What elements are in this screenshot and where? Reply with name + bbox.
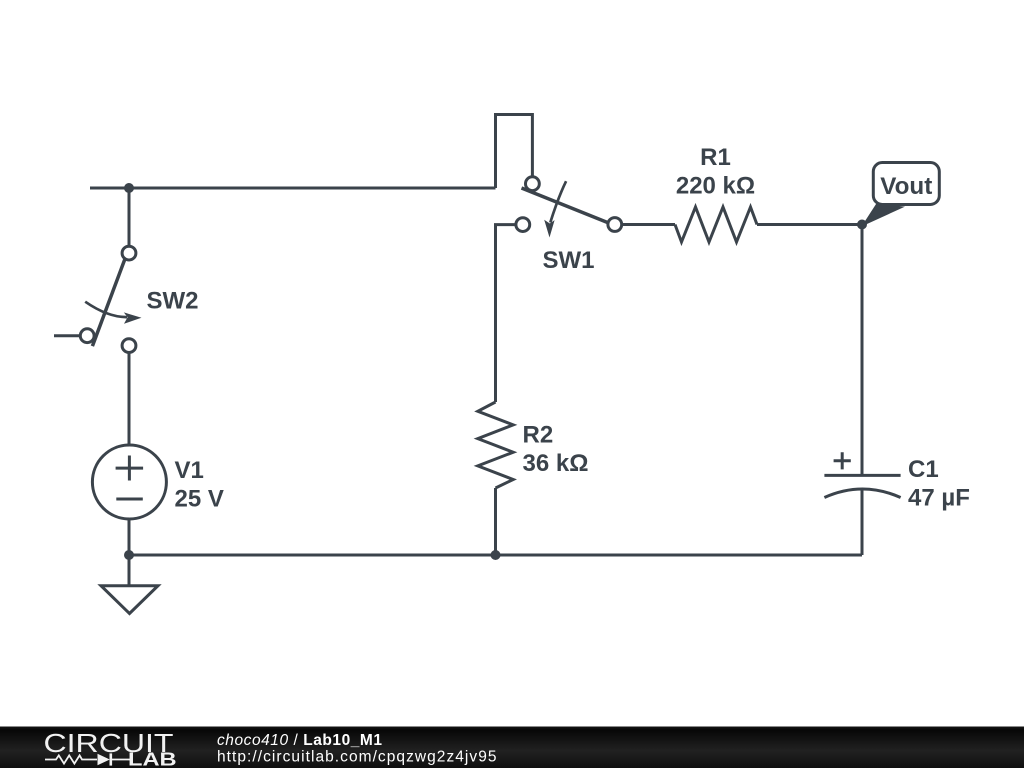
footer bar [0, 727, 1024, 768]
wire: jog up from top net to SW1 common terminal [496, 115, 533, 189]
ground [101, 555, 158, 614]
resistor R2 [478, 402, 513, 488]
wire: R1 to Vout node [757, 223, 862, 226]
svg-text:220 kΩ: 220 kΩ [676, 173, 755, 200]
switch SW2 [54, 246, 142, 352]
resistor R1 [675, 207, 757, 242]
wire: SW1 left throw terminal to R2 top [496, 225, 516, 402]
node: junction dot R2 / bottom net [491, 550, 501, 560]
node: junction dot Vout [857, 220, 867, 230]
wire: SW2 bottom terminal to V1 top [128, 353, 131, 446]
svg-text:Vout: Vout [880, 173, 932, 200]
wire: top horizontal net from left stub to SW1 jog [90, 187, 496, 190]
wire: Vout node down to C1 top [861, 225, 864, 476]
node: junction dot V1/ground [124, 550, 134, 560]
svg-text:choco410 / Lab10_M1: choco410 / Lab10_M1 [217, 732, 383, 749]
svg-text:R1: R1 [700, 144, 731, 171]
node flag Vout [862, 163, 940, 227]
wire: C1 bottom to bottom net corner [861, 490, 864, 555]
svg-text:36 kΩ: 36 kΩ [523, 450, 589, 477]
wire: junction down to SW2 top terminal [128, 188, 131, 246]
svg-text:V1: V1 [175, 457, 204, 484]
switch SW1 [516, 177, 622, 238]
svg-text:R2: R2 [523, 422, 554, 449]
node: junction dot top net / SW2 [124, 183, 134, 193]
svg-text:http://circuitlab.com/cpqzwg2z: http://circuitlab.com/cpqzwg2z4jv95 [217, 749, 498, 766]
svg-text:LAB: LAB [128, 749, 177, 768]
svg-text:SW2: SW2 [147, 288, 199, 315]
capacitor C1 [824, 452, 900, 497]
voltage source V1 [92, 445, 166, 519]
svg-text:SW1: SW1 [543, 247, 595, 274]
svg-text:C1: C1 [908, 456, 939, 483]
wire: V1 bottom to ground junction [128, 519, 131, 555]
wire: R2 bottom to bottom net [494, 488, 497, 555]
svg-text:25 V: 25 V [175, 486, 224, 513]
wire: bottom horizontal net [129, 554, 862, 557]
CircuitLab logo: resistor-diode glyph [45, 753, 130, 765]
wire: SW1 right throw terminal to R1 [622, 223, 675, 226]
svg-text:47 µF: 47 µF [908, 485, 970, 512]
